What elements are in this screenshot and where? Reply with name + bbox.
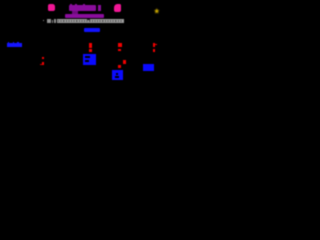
dark text marks at band top xyxy=(87,19,90,20)
red marker D dot xyxy=(153,49,155,52)
red marker A bar xyxy=(42,57,45,60)
blue link text center xyxy=(84,28,99,32)
red marker C bar xyxy=(118,43,122,47)
red marker B bar xyxy=(89,43,92,48)
blue rect right xyxy=(143,64,155,71)
red marker C dot xyxy=(118,49,121,52)
dark text glyph row inside band xyxy=(58,20,123,22)
gray description highlighted band xyxy=(57,19,124,23)
title line 2 (purple) xyxy=(65,14,104,18)
red square E1 xyxy=(123,60,126,64)
title line 1 (purple) xyxy=(69,5,96,11)
title line 1 descender xyxy=(72,11,77,14)
blue icon box lower xyxy=(112,70,123,81)
pink flower image left xyxy=(48,4,55,11)
red marker A dot xyxy=(42,62,45,66)
red square E2 xyxy=(118,65,121,68)
gold star top right xyxy=(154,8,160,14)
title line 1 cap bumps xyxy=(70,4,72,5)
pink flower image right xyxy=(114,4,121,12)
red marker B dot xyxy=(89,49,92,51)
blue icon box center xyxy=(83,54,96,65)
gray description text left fragment xyxy=(42,20,45,21)
red marker D bar xyxy=(153,43,156,47)
blue underlined link "Schedule" left xyxy=(7,43,22,47)
title line 1 trailing glyph xyxy=(98,5,101,11)
